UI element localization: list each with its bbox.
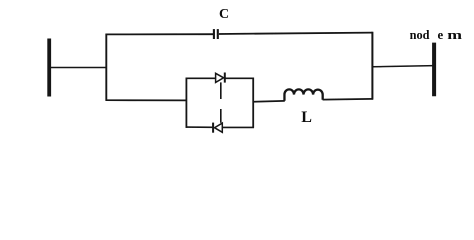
wire thyristor box to inductor: [253, 100, 285, 103]
thyristor T1 triangle: [216, 73, 224, 82]
dashed link upper segment: [220, 82, 222, 99]
thyristor box top edge right segment: [225, 77, 254, 79]
svg-text:m: m: [447, 28, 462, 42]
wire from left bus to loop: [51, 67, 108, 69]
capacitor C plates: [214, 29, 218, 39]
thyristor box bottom edge left segment: [186, 126, 214, 128]
svg-text:L: L: [301, 109, 312, 126]
wire from loop to right bus: [372, 66, 434, 67]
bus bar right node m: [432, 43, 436, 97]
wire left vertical of outer loop: [105, 34, 107, 101]
thyristor box right edge: [252, 78, 254, 128]
wire top right (capacitor to right loop corner): [219, 33, 373, 34]
svg-text:nod: nod: [410, 28, 430, 42]
thyristor box bottom edge right segment: [222, 126, 254, 128]
wire bottom left (loop corner to thyristor box): [106, 99, 188, 101]
svg-text:e: e: [438, 28, 444, 42]
dashed link lower segment: [220, 109, 222, 123]
bus bar left: [47, 39, 51, 97]
thyristor T2 anode bar: [212, 123, 214, 133]
inductor L coil: [284, 89, 322, 100]
thyristor box top edge left segment: [186, 77, 216, 79]
thyristor box left edge: [185, 78, 187, 128]
thyristor T1 cathode bar: [224, 73, 226, 83]
wire inductor to right loop corner: [323, 98, 373, 101]
svg-text:C: C: [219, 7, 229, 22]
wire right vertical of outer loop: [371, 32, 373, 100]
wire top left (loop corner to capacitor): [106, 33, 214, 35]
thyristor T2 triangle: [215, 123, 223, 132]
